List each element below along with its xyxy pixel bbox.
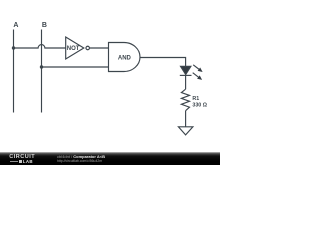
wire B vertical (41, 30, 43, 113)
svg-text:330 Ω: 330 Ω (192, 102, 207, 108)
wire LED to R1 (185, 75, 187, 89)
wire A vertical (13, 30, 15, 113)
LED D1 (180, 65, 203, 80)
svg-text:A: A (13, 22, 18, 29)
svg-text:B: B (42, 22, 47, 29)
svg-text:NOT: NOT (67, 46, 80, 52)
caption url (57, 159, 102, 163)
wire A to NOT input (hop over B) (14, 45, 66, 48)
NOT gate U1 (66, 37, 90, 59)
wire NOT output to AND input (90, 47, 109, 49)
wire B to AND input (42, 66, 109, 68)
ground (178, 127, 193, 135)
caption title (57, 155, 105, 159)
svg-text:AND: AND (118, 56, 132, 62)
AND gate U2 (109, 43, 141, 72)
resistor R1 (181, 89, 189, 111)
junction node A (12, 46, 15, 49)
svg-text:R1: R1 (192, 96, 199, 102)
CircuitLab logo (9, 155, 35, 161)
wire R1 to ground (185, 111, 187, 127)
footer bar (0, 152, 220, 165)
wire AND output to LED (140, 58, 186, 67)
junction node B (40, 65, 43, 68)
